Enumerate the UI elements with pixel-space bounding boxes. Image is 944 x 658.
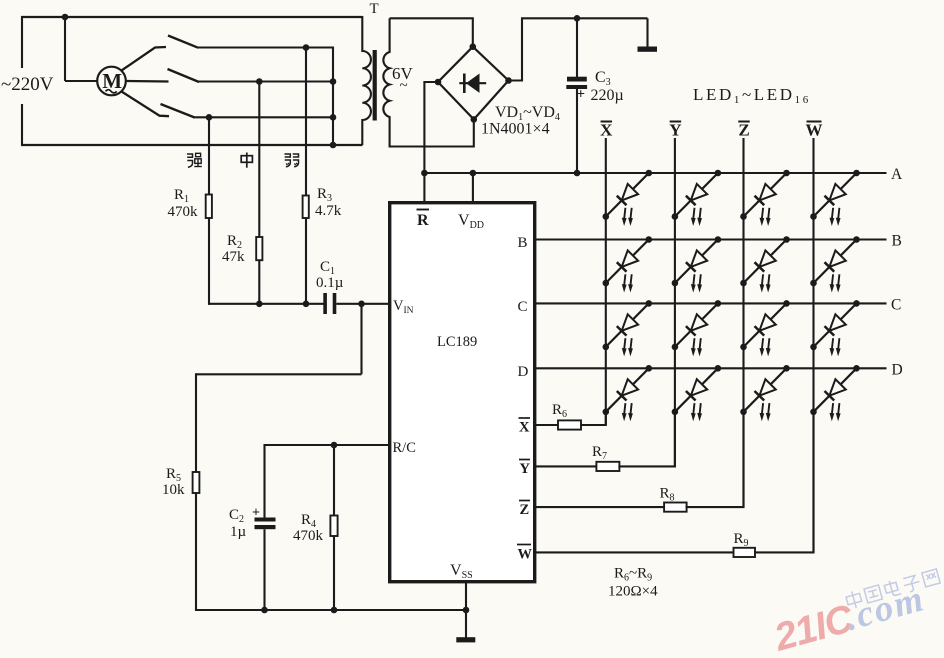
node R2 to VIN wire (256, 301, 263, 308)
node R3 tap on S1 wire (303, 44, 310, 51)
LED15 (D row, Z column) (744, 368, 787, 412)
wire R8 right (686, 412, 744, 507)
wire R2 top (258, 82, 260, 238)
capacitor C1 left plate (323, 293, 327, 314)
wire R3 top (305, 48, 307, 196)
wire R8 left (535, 506, 665, 508)
capacitor C2 top plate (255, 518, 276, 522)
wire C2 bottom (263, 529, 265, 610)
wire secondary top to bridge (390, 18, 473, 46)
svg-text:LED1~LED16: LED1~LED16 (693, 85, 811, 106)
svg-text:120Ω×4: 120Ω×4 (608, 584, 658, 600)
wire C3 top (576, 18, 578, 77)
svg-text:X: X (519, 420, 530, 436)
wire mains left vertical lower (21, 104, 23, 146)
label ruo (weak) speed (285, 154, 291, 167)
wire VIN horizontal right (336, 303, 389, 305)
IC U1 LC189 box (390, 203, 535, 582)
switch S1 blade (168, 36, 198, 48)
transformer T primary winding (362, 16, 371, 145)
svg-text:B: B (892, 233, 902, 250)
wire R4 top (333, 445, 335, 516)
wire motor feed horizontal (65, 80, 98, 82)
label zhong (middle) speed (241, 156, 252, 163)
resistor R1 body (206, 195, 212, 219)
node motor feed junction (62, 14, 69, 21)
svg-text:10k: 10k (162, 482, 185, 498)
svg-text:Z: Z (738, 121, 749, 140)
wire row D (535, 367, 887, 369)
switch S3 blade (161, 104, 195, 117)
svg-text:R6~R9: R6~R9 (614, 566, 652, 584)
wire S1 output (197, 48, 333, 82)
wire VDD rail row A (424, 172, 886, 174)
svg-text:470k: 470k (293, 528, 324, 544)
resistor R6 body (558, 420, 581, 429)
svg-text:470k: 470k (168, 204, 199, 220)
wire VSS drop (465, 582, 467, 638)
wire S2 output (198, 80, 333, 82)
resistor R8 body (664, 503, 687, 512)
LED9 (C row, X column) (606, 303, 649, 347)
node R4 tap on R/C (331, 442, 338, 449)
node rail C3 junction (574, 170, 581, 177)
node rail VDD junction (470, 170, 477, 177)
switch S2 blade (168, 69, 200, 82)
wire R-bar pin drop (423, 173, 425, 203)
svg-text:B: B (518, 235, 528, 251)
wire VIN branch drop (360, 304, 362, 375)
wire R3 bottom (305, 218, 307, 304)
wire R6 right (580, 412, 606, 425)
wire column W vertical (812, 138, 814, 552)
capacitor C2 bottom plate (255, 525, 276, 529)
wire mains bottom rail (21, 144, 363, 146)
LED7 (B row, Z column) (744, 240, 787, 284)
wire row B (535, 238, 887, 240)
wire bridge left output (424, 82, 438, 173)
wire R1 bottom (208, 218, 210, 305)
wire to top ground (646, 18, 648, 47)
svg-text:4.7k: 4.7k (315, 203, 342, 219)
LED11 (C row, Z column) (744, 303, 787, 347)
wire R2 bottom (258, 260, 260, 304)
diode symbol inside bridge (459, 82, 486, 84)
svg-text:Y: Y (520, 461, 531, 477)
watermark 21IC.com (768, 568, 944, 658)
wire bridge right output (509, 18, 648, 80)
wire VDD pin drop (472, 173, 474, 203)
LED8 (B row, W column) (814, 240, 857, 284)
svg-text:47k: 47k (222, 249, 245, 265)
svg-text:W: W (518, 547, 533, 563)
LED2 (A row, Y column) (675, 173, 718, 217)
wire column X vertical (605, 138, 607, 425)
svg-text:X: X (600, 121, 613, 140)
wire branch horizontal (196, 373, 362, 375)
svg-text:W: W (806, 121, 823, 140)
LED10 (C row, Y column) (675, 303, 718, 347)
capacitor C1 right plate (333, 293, 337, 314)
node VSS rail junction (463, 607, 470, 614)
wire ground rail bottom (195, 609, 466, 611)
wire column Z vertical (742, 138, 744, 507)
switch S2 pole wire (middle speed tap) (126, 80, 169, 83)
resistor R2 body (256, 237, 262, 260)
wire VIN horizontal left (208, 303, 325, 305)
resistor R7 body (596, 462, 619, 471)
svg-text:A: A (891, 166, 903, 183)
node bridge right vertex (505, 77, 512, 84)
svg-text:R: R (417, 212, 429, 229)
resistor R4 body (330, 516, 337, 537)
wire R5 top (195, 373, 197, 472)
svg-text:1µ: 1µ (230, 524, 247, 540)
wire row C (535, 302, 887, 304)
label qiang (strong) speed (187, 154, 193, 167)
svg-text:~220V: ~220V (1, 74, 54, 95)
svg-text:Z: Z (520, 502, 530, 518)
wire mains top rail (21, 16, 363, 18)
node rail R-pin junction (421, 170, 428, 177)
svg-text:~: ~ (400, 78, 408, 94)
svg-text:C: C (891, 297, 901, 314)
LED12 (C row, W column) (814, 303, 857, 347)
node R3 to VIN wire (303, 301, 310, 308)
node C2 ground (261, 607, 268, 614)
capacitor C3 top plate (567, 77, 587, 82)
svg-text:C: C (518, 299, 528, 315)
svg-text:D: D (892, 362, 903, 379)
transformer T core (373, 50, 377, 121)
wire R7 left (535, 465, 598, 467)
wire R1 top (208, 117, 210, 194)
wire switch common vertical (332, 82, 334, 146)
node switch common to neutral (330, 142, 337, 149)
switch S1 pole wire (top speed tap) (122, 47, 167, 71)
wire R9 left (535, 551, 735, 553)
motor M fan motor (97, 67, 126, 96)
LED14 (D row, Y column) (675, 368, 718, 412)
node bridge left vertex (435, 79, 442, 86)
node C3 top junction (574, 15, 581, 22)
node R2 tap on S2 wire (256, 78, 263, 85)
svg-text:0.1µ: 0.1µ (316, 275, 344, 291)
LED1 (A row, X column) (606, 173, 649, 217)
node bridge top vertex (470, 43, 477, 50)
wire R6 left (535, 424, 559, 426)
svg-text:M: M (102, 69, 122, 93)
wire C3 bottom (576, 89, 578, 173)
node VIN branch junction (358, 301, 365, 308)
node R4 ground (331, 607, 338, 614)
resistor R5 body (193, 472, 200, 493)
node R1 tap on S3 wire (206, 114, 213, 121)
svg-text:D: D (518, 364, 529, 380)
wire R5 bottom (195, 493, 197, 611)
resistor R3 body (303, 196, 309, 219)
LED13 (D row, X column) (606, 368, 649, 412)
LED6 (B row, Y column) (675, 240, 718, 284)
capacitor C3 bottom plate (566, 85, 587, 89)
ground symbol top right (638, 47, 658, 52)
wire R9 right (754, 412, 814, 553)
LED3 (A row, Z column) (744, 173, 787, 217)
wire R7 right (618, 412, 675, 467)
ground symbol bottom (456, 637, 475, 642)
svg-text:LC189: LC189 (437, 334, 477, 350)
svg-text:1N4001×4: 1N4001×4 (481, 121, 550, 138)
node bridge bottom vertex (471, 116, 478, 123)
wire mains left vertical upper (21, 16, 23, 68)
node S1/S2 join (330, 78, 337, 85)
wire R/C horizontal (265, 444, 390, 446)
LED5 (B row, X column) (606, 240, 649, 284)
wire S3 output (193, 116, 333, 118)
node S3 join (330, 114, 337, 121)
resistor R9 body (734, 548, 756, 557)
svg-text:R/C: R/C (393, 440, 416, 456)
bridge rectifier VD1-VD4 diamond (438, 47, 509, 120)
svg-text:Y: Y (669, 121, 681, 140)
wire motor feed drop (64, 17, 66, 81)
wire C2 top (263, 444, 265, 518)
svg-text:220µ: 220µ (591, 87, 624, 104)
svg-text:T: T (370, 1, 379, 17)
wire R4 bottom (333, 536, 335, 610)
LED4 (A row, W column) (814, 173, 857, 217)
wire secondary bottom to bridge (390, 119, 474, 146)
LED16 (D row, W column) (814, 368, 857, 412)
wire column Y vertical (674, 138, 676, 466)
transformer T secondary winding (383, 18, 389, 147)
switch S3 pole wire (bottom speed tap) (122, 92, 170, 117)
